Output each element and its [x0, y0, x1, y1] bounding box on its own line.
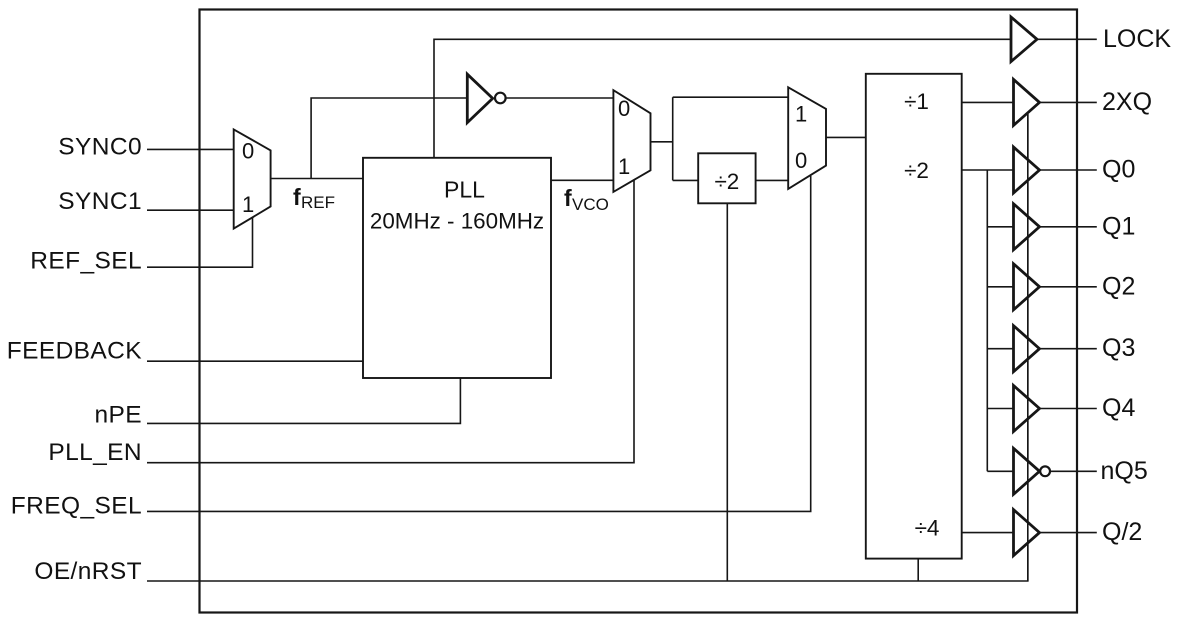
- wire div1 out to 2XQ buffer: [962, 101, 1014, 103]
- svg-text:nQ5: nQ5: [1101, 457, 1148, 485]
- wire div2 bottom to OE line: [726, 203, 728, 581]
- svg-text:PLL_EN: PLL_EN: [48, 439, 142, 466]
- inverter bubble: [495, 93, 506, 104]
- wire mux2 out to junction: [651, 141, 673, 143]
- svg-text:OE/nRST: OE/nRST: [34, 558, 142, 585]
- svg-text:0: 0: [618, 96, 630, 121]
- wire SYNC1 input: [147, 209, 234, 211]
- svg-text:Q4: Q4: [1102, 394, 1135, 422]
- buffer Q3: [1014, 326, 1040, 372]
- buffer Q4: [1014, 386, 1040, 432]
- PLL block U2: [363, 158, 551, 378]
- svg-text:FEEDBACK: FEEDBACK: [7, 337, 143, 364]
- mux U6 (FREQ_SEL, 1/0): [788, 87, 826, 189]
- wire PLL_EN input: [147, 180, 634, 463]
- wire 2XQ out: [1040, 101, 1097, 103]
- buffer Q/2: [1014, 510, 1040, 556]
- wire PLL top to LOCK line: [434, 39, 1011, 158]
- inverter U3: [467, 74, 492, 122]
- wire REF_SEL input: [147, 217, 253, 267]
- svg-text:1: 1: [618, 154, 630, 179]
- svg-text:PLL: PLL: [444, 177, 485, 203]
- buffer LOCK: [1011, 17, 1037, 62]
- wire Q/2 out: [1040, 532, 1097, 534]
- mux U4 (PLL bypass, 0/1): [613, 90, 650, 192]
- wire div4 out to Q/2 buffer: [962, 532, 1014, 534]
- wire Q4 out: [1040, 408, 1097, 410]
- svg-text:VCO: VCO: [572, 195, 609, 214]
- svg-text:Q/2: Q/2: [1102, 518, 1142, 546]
- wire Q3 out: [1040, 348, 1097, 350]
- wire Q1 out: [1040, 226, 1097, 228]
- wire FEEDBACK input: [147, 360, 363, 362]
- wire fVCO: PLL out to mux2: [551, 179, 613, 181]
- wire bank bottom to OE line: [917, 559, 919, 581]
- svg-text:÷1: ÷1: [904, 89, 929, 114]
- svg-text:Q3: Q3: [1102, 334, 1135, 362]
- mux U1 select mux (REF_SEL): [234, 129, 271, 228]
- svg-text:1: 1: [795, 102, 807, 127]
- svg-text:0: 0: [795, 148, 807, 173]
- wire bus to Q2: [987, 286, 1013, 288]
- wire bus to Q4: [987, 408, 1013, 410]
- wire OE enable vertical redrawn over triangles: [1027, 114, 1029, 581]
- buffer 2XQ: [1014, 79, 1040, 125]
- nQ5 bubble: [1040, 466, 1050, 476]
- node junction vertical: [672, 97, 674, 180]
- svg-text:÷4: ÷4: [915, 516, 940, 541]
- wire bus to Q1: [987, 226, 1013, 228]
- wire junction top to mux3 "1": [673, 96, 789, 98]
- wire bus to Q3: [987, 348, 1013, 350]
- wire FREQ_SEL input: [147, 176, 811, 512]
- wire bus to nQ5: [987, 470, 1013, 472]
- svg-text:0: 0: [242, 139, 254, 164]
- wire OE/nRST input: [147, 114, 1028, 581]
- svg-text:Q2: Q2: [1102, 272, 1135, 300]
- buffer Q1: [1014, 204, 1040, 250]
- svg-text:SYNC1: SYNC1: [58, 188, 142, 215]
- svg-text:1: 1: [242, 192, 254, 217]
- wire fREF: mux1 output to PLL: [271, 178, 363, 180]
- svg-text:÷2: ÷2: [904, 158, 929, 183]
- svg-text:REF: REF: [301, 193, 335, 212]
- buffer nQ5 (inverting): [1014, 448, 1040, 494]
- buffer Q2: [1014, 264, 1040, 310]
- wire nPE input: [147, 378, 460, 423]
- svg-text:÷2: ÷2: [714, 169, 739, 194]
- wire nQ5 out: [1050, 470, 1097, 472]
- svg-text:FREQ_SEL: FREQ_SEL: [11, 493, 142, 520]
- outer box: [200, 10, 1078, 613]
- svg-text:LOCK: LOCK: [1103, 25, 1171, 53]
- divider U5 (/2 box): [698, 153, 755, 203]
- wire mux3 out to divider bank: [826, 136, 866, 138]
- wire LOCK out: [1037, 38, 1097, 40]
- buffer Q0: [1014, 147, 1040, 193]
- svg-text:2XQ: 2XQ: [1102, 88, 1152, 116]
- svg-text:f: f: [293, 184, 301, 210]
- node Q bus vertical: [986, 170, 988, 471]
- divider bank U7: [866, 74, 962, 559]
- wire Q2 out: [1040, 286, 1097, 288]
- svg-text:Q0: Q0: [1102, 156, 1135, 184]
- svg-text:nPE: nPE: [94, 401, 142, 428]
- wire Q0 out: [1040, 169, 1097, 171]
- wire div2 out to Q0 buffer: [962, 169, 1014, 171]
- svg-text:SYNC0: SYNC0: [58, 134, 142, 161]
- wire SYNC0 input: [147, 148, 234, 150]
- svg-text:REF_SEL: REF_SEL: [30, 247, 142, 274]
- svg-text:20MHz - 160MHz: 20MHz - 160MHz: [370, 208, 544, 233]
- wire fREF branch up to inverter: [311, 98, 467, 179]
- svg-text:f: f: [564, 185, 572, 211]
- wire inverter out to mux2: [506, 97, 613, 99]
- svg-text:Q1: Q1: [1102, 212, 1135, 240]
- wire div2 out to mux3 "0": [756, 179, 789, 181]
- wire junction bottom to div2: [673, 179, 699, 181]
